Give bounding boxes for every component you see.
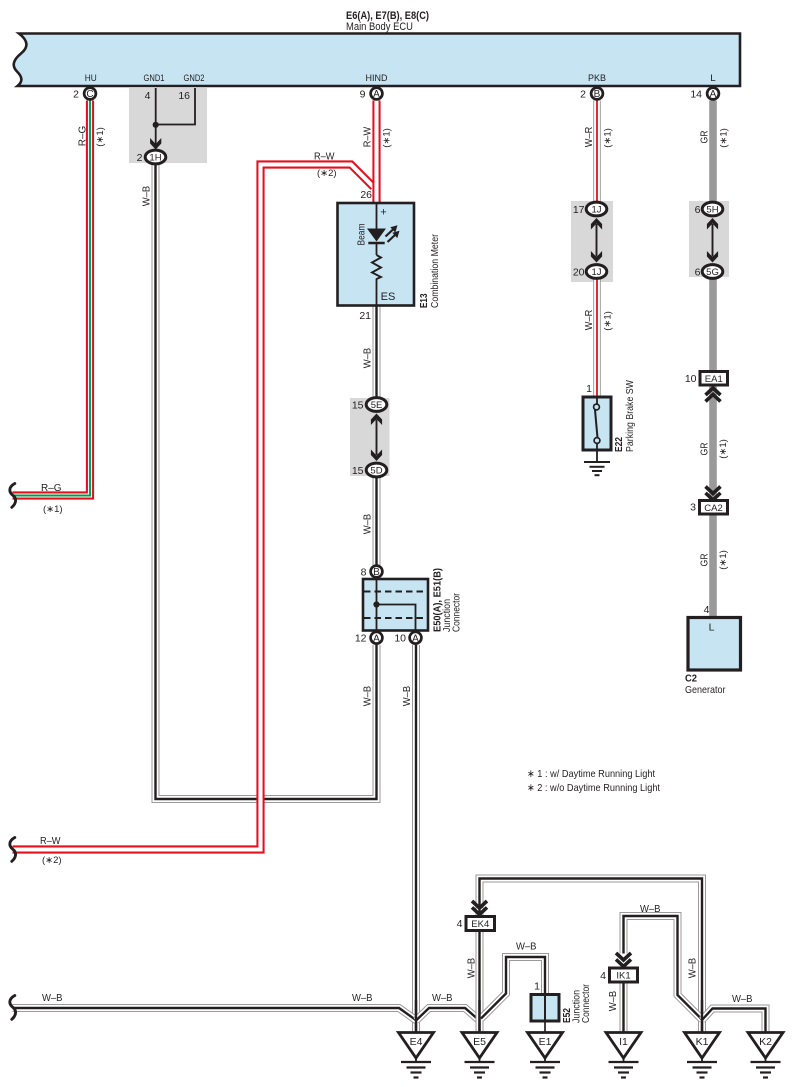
ground E1 [528,1033,563,1078]
svg-text:1J: 1J [591,267,601,278]
switch contacts E22 [594,397,600,462]
wire W-B E50 pin10 to ground E4 [412,645,420,1033]
junction dot [153,122,159,128]
wire W-B IK1 to ground I1 [620,982,628,1033]
svg-text:GR: GR [699,442,711,455]
svg-text:W–B: W–B [466,958,478,979]
gray connector box 1J/1J [571,201,613,282]
chevron down above EK4 [472,901,487,914]
wire GND2 pin16 [156,88,195,125]
svg-text:K2: K2 [759,1036,772,1048]
svg-text:(∗2): (∗2) [317,168,337,179]
svg-text:12: 12 [355,633,367,645]
wire E52 to E1 [544,1021,546,1033]
connector IK1 [610,968,638,982]
svg-text:A: A [412,633,419,644]
svg-text:W–B: W–B [352,992,373,1004]
wire W-B 1H to E50 pin12 [156,163,377,799]
svg-text:16: 16 [178,90,190,102]
svg-text:4: 4 [600,970,606,982]
svg-text:3: 3 [690,502,696,514]
svg-text:17: 17 [573,204,585,216]
wire W-B meter ES to 5E [373,304,381,399]
svg-text:GR: GR [699,130,711,143]
svg-text:E4: E4 [410,1036,423,1048]
svg-text:K1: K1 [696,1036,709,1048]
svg-text:B: B [373,567,380,578]
svg-text:10: 10 [394,633,406,645]
wire R-W (*2) branch [13,165,374,850]
wire GR CA2 to generator [709,514,717,618]
svg-text:1: 1 [534,981,540,993]
gray connector box 5E/5D [350,398,390,476]
svg-text:W–B: W–B [516,941,537,953]
svg-text:A: A [710,89,717,100]
svg-text:W–B: W–B [42,992,63,1004]
arrow 5H-5G [707,218,718,263]
ground under E22 [584,462,610,475]
svg-text:W–R: W–R [583,126,595,147]
svg-text:ES: ES [381,291,396,303]
svg-text:5E: 5E [371,400,383,411]
svg-text:26: 26 [360,189,372,201]
svg-text:A: A [373,89,380,100]
svg-text:Connector: Connector [581,983,592,1023]
wire break R-G [10,484,16,508]
svg-text:W–B: W–B [362,686,374,707]
svg-text:W–B: W–B [362,514,374,535]
svg-text:8: 8 [361,567,367,579]
wire W-B E4 to E5 [416,1008,480,1021]
svg-text:L: L [710,73,716,84]
svg-text:W–B: W–B [362,348,374,369]
gray connector box GND1/GND2-1H [129,88,207,163]
chevron down above CA2 [706,487,721,500]
svg-text:R–G: R–G [41,482,62,494]
node E50 pin8 B [371,566,383,579]
svg-text:HIND: HIND [366,73,388,84]
svg-text:W–B: W–B [607,991,619,1012]
svg-text:(∗1): (∗1) [95,127,106,147]
arrow 5E-5D [371,414,382,462]
svg-text:I1: I1 [619,1036,628,1048]
svg-text:W–B: W–B [640,903,661,915]
connector EA1 [700,372,728,386]
wire W-B EK4 to ground E5 [476,931,484,1033]
svg-text:R–G: R–G [77,126,89,147]
svg-text:E5: E5 [473,1036,486,1048]
node E50 pin10 A [410,632,422,645]
svg-text:(∗1): (∗1) [43,504,63,515]
svg-text:2: 2 [580,89,586,101]
svg-text:∗ 1 : w/ Daytime Running Light: ∗ 1 : w/ Daytime Running Light [527,768,655,780]
chevron down above IK1 [616,953,631,966]
wire GR EA1 to CA2 [709,385,717,501]
svg-text:21: 21 [359,310,371,322]
svg-text:EK4: EK4 [471,919,489,930]
generator C2 box [688,618,741,671]
svg-text:PKB: PKB [588,73,606,84]
ground I1 [606,1033,641,1078]
svg-text:W–B: W–B [401,686,413,707]
wire W-B loop EK4 to K1 [480,879,703,1033]
node L connector A [707,88,719,101]
gray connector box 5H/5G [689,201,729,277]
svg-text:B: B [594,89,601,100]
wire E50 internal [377,579,416,634]
svg-text:(∗1): (∗1) [718,550,729,570]
svg-text:W–B: W–B [141,186,153,207]
svg-text:HU: HU [85,73,97,84]
svg-text:5G: 5G [706,267,719,278]
dashed bus E50 [364,592,427,619]
svg-text:15: 15 [352,400,364,412]
svg-text:EA1: EA1 [705,374,723,385]
svg-text:2: 2 [137,152,143,164]
svg-text:∗ 2 : w/o Daytime Running Ligh: ∗ 2 : w/o Daytime Running Light [527,782,660,794]
svg-text:Connector: Connector [452,592,463,632]
svg-text:1: 1 [586,383,592,395]
svg-text:GND1: GND1 [144,73,165,84]
svg-text:4: 4 [704,604,710,616]
resistor in meter [372,255,381,279]
connector EK4 [466,917,495,931]
svg-text:(∗1): (∗1) [718,439,729,459]
svg-text:L: L [709,622,715,634]
ground K2 [748,1033,783,1078]
svg-text:Beam: Beam [357,224,368,246]
ground E5 [462,1033,497,1078]
svg-text:IK1: IK1 [616,971,630,982]
connector 1J lower [586,265,607,279]
wire W-B loop E5 to E52 [481,957,545,1019]
svg-text:9: 9 [360,89,366,101]
connector 5H [702,202,723,216]
wire R-W HIND to meter pin26 [372,101,380,203]
svg-text:Combination Meter: Combination Meter [430,233,441,308]
svg-text:(∗1): (∗1) [382,128,393,148]
svg-text:E1: E1 [539,1036,552,1048]
svg-text:6: 6 [695,267,701,279]
svg-text:A: A [373,633,380,644]
node HIND connector A [371,88,383,101]
svg-text:(∗1): (∗1) [603,128,614,148]
ground E4 [399,1033,434,1078]
svg-text:W–B: W–B [687,958,699,979]
svg-text:1J: 1J [591,204,601,215]
svg-text:GND2: GND2 [184,73,205,84]
svg-text:E22: E22 [614,437,625,452]
node E50 pin12 A [371,632,383,645]
Main Body ECU E6(A),E7(B),E8(C) [14,34,740,87]
node HU connector C [84,88,96,101]
wire GR L to 5H [709,101,717,203]
ground K1 [685,1033,720,1078]
junction dot E50 [373,601,379,607]
chevron up below EA1 [706,388,721,401]
connector 5D [366,463,387,477]
parking brake switch E22 box [583,397,611,450]
wire break W-B [10,996,16,1020]
svg-text:Parking Brake SW: Parking Brake SW [625,380,636,452]
svg-text:W–B: W–B [432,992,453,1004]
svg-text:+: + [380,207,386,219]
svg-text:R–W: R–W [362,127,374,148]
svg-text:10: 10 [685,373,697,385]
svg-text:4: 4 [145,90,151,102]
wire W-B long bottom run to E4 [13,1008,417,1021]
svg-text:(∗1): (∗1) [719,128,730,148]
wire GND1 pin4 [155,88,157,147]
svg-text:(∗1): (∗1) [603,311,614,331]
wire W-B loop IK1 to K1 [624,916,703,1020]
connector CA2 [700,501,728,515]
wire W-B 5D to E50 pin8 [373,475,381,565]
svg-text:C: C [86,89,93,100]
svg-text:1H: 1H [149,152,161,163]
junction connector E52 box [531,995,559,1022]
svg-text:Generator: Generator [685,684,726,696]
connector 1J upper [586,202,607,216]
wire meter internal [376,203,378,305]
svg-text:W–R: W–R [583,309,595,330]
svg-text:C2: C2 [685,673,697,685]
junction connector E50(A),E51(B) box [363,579,428,631]
svg-text:CA2: CA2 [704,503,722,514]
connector 5G [702,265,723,279]
connector 5E [366,398,387,412]
svg-text:R–W: R–W [314,151,335,163]
LED beam indicator [367,225,400,243]
svg-text:(∗2): (∗2) [42,855,62,866]
svg-text:E13: E13 [419,293,430,308]
combination meter E13 box [338,203,415,306]
arrow into 1H [150,138,161,150]
svg-text:R–W: R–W [40,835,61,847]
svg-text:Main Body ECU: Main Body ECU [346,21,413,33]
svg-text:GR: GR [699,553,711,566]
connector 1H [145,150,166,164]
wire W-R 1J to E22 [593,278,601,398]
wire W-R PKB to 1J [593,101,601,204]
svg-text:2: 2 [73,89,79,101]
svg-text:14: 14 [690,89,702,101]
svg-text:15: 15 [352,465,364,477]
svg-text:W–B: W–B [732,993,753,1005]
svg-text:4: 4 [457,918,463,930]
wire break R-W [10,838,16,862]
wire junction re-strokes [416,1000,702,1033]
svg-text:20: 20 [573,267,585,279]
arrow 1J-1J [591,218,602,263]
wire GR 5G to EA1 [709,278,717,373]
svg-text:5D: 5D [370,465,382,476]
svg-text:6: 6 [695,204,701,216]
node PKB connector B [591,88,603,101]
wire W-B K1 to ground K2 [702,1009,766,1033]
wire R-G HU [13,101,91,496]
svg-text:5H: 5H [706,204,718,215]
